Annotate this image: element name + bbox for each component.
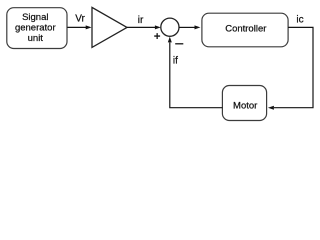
svg-text:Controller: Controller	[225, 24, 266, 35]
svg-text:ir: ir	[138, 15, 144, 26]
svg-text:ic: ic	[296, 15, 303, 26]
svg-text:Vr: Vr	[75, 14, 85, 25]
svg-text:Motor: Motor	[233, 100, 257, 111]
svg-text:unit: unit	[28, 33, 44, 44]
svg-text:Signal: Signal	[22, 12, 48, 23]
svg-text:if: if	[173, 55, 178, 66]
svg-text:generator: generator	[15, 23, 56, 34]
